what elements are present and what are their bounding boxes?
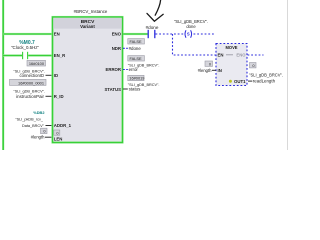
svg-text:EN: EN [54, 32, 60, 37]
contact %M0.7 Clock_0.5Hz [23, 52, 28, 59]
svg-text:ERROR: ERROR [105, 67, 121, 72]
pin ENO (MOVE, unconnected gray) [226, 54, 233, 56]
warning dot OUT1 [229, 80, 232, 83]
operand NDR: FALSE #done [123, 39, 144, 51]
pin LEN with monitor box 0 [54, 130, 63, 141]
svg-text:STATUS: STATUS [104, 87, 121, 92]
operand LEN: value box 0, #length [31, 128, 52, 140]
svg-text:Variant: Variant [80, 24, 95, 29]
svg-text:EN_R: EN_R [54, 53, 66, 58]
coil S "SLI_gDB_BRCV".done [174, 19, 208, 38]
function block U1 BRCV Variant [53, 17, 123, 143]
block U2 MOVE (selected, dashed) [216, 44, 247, 86]
svg-text:%DB2: %DB2 [33, 110, 45, 115]
wire coil to end (dashed blue) [194, 33, 215, 35]
svg-text:error: error [129, 67, 139, 72]
svg-text:MOVE: MOVE [225, 45, 237, 50]
editor pane divider [287, 0, 289, 150]
operand ADDR_1: %DB2 SLI_pkDB_rcv_Data_BRCV [15, 110, 52, 128]
svg-text:OUT1: OUT1 [234, 79, 246, 84]
wire contact to branch (dashed blue) [156, 33, 184, 35]
svg-text:16#0019: 16#0019 [129, 76, 144, 81]
svg-text:ADDR_1: ADDR_1 [54, 123, 72, 128]
svg-text:ENO: ENO [236, 53, 246, 58]
svg-text:#length: #length [31, 135, 45, 140]
svg-text:readLength: readLength [253, 79, 276, 84]
operand ID: value box 16#0100 [13, 60, 52, 78]
svg-text:S: S [187, 32, 190, 37]
contact #done (selected, blue) [148, 30, 155, 38]
svg-text:#BRCV_Instance: #BRCV_Instance [74, 9, 108, 14]
wire contact to EN_R [28, 54, 52, 56]
branch wire down to MOVE EN (dashed blue) [173, 34, 217, 55]
left power rail [2, 0, 4, 150]
svg-text:FALSE: FALSE [130, 39, 143, 44]
svg-text:NDR: NDR [112, 46, 122, 51]
svg-text:ENO: ENO [112, 32, 122, 37]
svg-text:#done: #done [129, 46, 142, 51]
svg-text:"SLI_pkDB_rcv_: "SLI_pkDB_rcv_ [15, 117, 44, 121]
svg-text:#done: #done [146, 25, 159, 30]
wire ENO out [123, 33, 148, 35]
wire EN [3, 33, 52, 35]
svg-text:IN: IN [218, 68, 222, 73]
svg-text:"Clock_0.5Hz": "Clock_0.5Hz" [11, 45, 39, 50]
operand IN: value box 0, #length [198, 61, 216, 73]
annotation arrow [147, 0, 163, 21]
svg-text:R_ID: R_ID [54, 94, 64, 99]
svg-text:Data_BRCV": Data_BRCV" [22, 124, 45, 128]
svg-text:16#0000_0001: 16#0000_0001 [18, 80, 44, 85]
operand OUT1: value box 0, "SLI_gDB_BRCV".readLength [248, 63, 283, 84]
svg-text:instructionPair: instructionPair [16, 94, 44, 99]
wire ENO open end (dashed blue) [248, 54, 264, 56]
svg-text:#length: #length [198, 68, 212, 73]
svg-text:done: done [186, 24, 196, 29]
svg-text:ID: ID [54, 73, 58, 78]
svg-text:EN: EN [218, 53, 224, 58]
svg-text:FALSE: FALSE [130, 56, 143, 61]
svg-text:"SLI_gDB_BRCV".: "SLI_gDB_BRCV". [13, 89, 45, 93]
svg-text:connectionID: connectionID [20, 73, 44, 78]
svg-text:status: status [129, 87, 142, 92]
svg-text:"SLI_gDB_BRCV".: "SLI_gDB_BRCV". [249, 72, 283, 77]
operand ERROR: FALSE "SLI_gDB_BRCV".error [123, 56, 159, 73]
operand R_ID: value box 16#0000_0001 [10, 79, 53, 99]
svg-text:LEN: LEN [54, 136, 63, 141]
operand STATUS: 16#0019 "SLI_gDB_BRCV".status [123, 75, 159, 91]
svg-text:16#0100: 16#0100 [29, 61, 45, 66]
wire to contact Clock_0.5Hz [3, 54, 22, 56]
